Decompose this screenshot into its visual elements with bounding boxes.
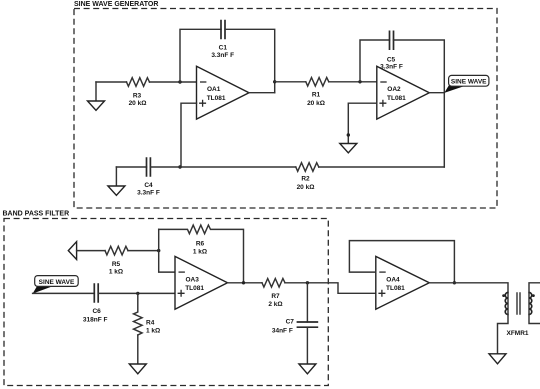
port arrow (R5 input) <box>68 242 76 260</box>
svg-text:3.3nF F: 3.3nF F <box>211 52 234 59</box>
resistor R7 <box>262 278 285 287</box>
wire primary bottom to ground <box>498 315 509 354</box>
svg-text:C5: C5 <box>387 57 396 64</box>
flag SINE WAVE output <box>444 75 489 93</box>
svg-text:20 kΩ: 20 kΩ <box>307 100 325 107</box>
phase dot primary <box>502 294 505 297</box>
wire R3 left <box>96 81 127 83</box>
resistor R2 <box>296 163 319 172</box>
node (OA2 inverting input) <box>358 80 361 83</box>
wire C5 right to output vertical <box>394 40 445 167</box>
wire OA1 plus input down to bottom rail <box>181 103 197 167</box>
svg-text:C4: C4 <box>144 182 153 189</box>
wire R4 to ground <box>137 335 139 364</box>
svg-text:318nF F: 318nF F <box>83 316 108 323</box>
svg-text:1 kΩ: 1 kΩ <box>109 269 123 276</box>
ground (OA2 non-inverting) <box>340 144 357 153</box>
svg-text:TL081: TL081 <box>387 95 406 102</box>
capacitor C7 <box>297 322 319 327</box>
svg-text:R7: R7 <box>271 293 280 300</box>
node (OA3 output / R6) <box>242 281 245 284</box>
wire OA4 feedback loop <box>349 241 454 283</box>
wire R5 to junction <box>128 250 159 252</box>
wire C1 right to output vertical <box>225 29 275 92</box>
svg-text:20 kΩ: 20 kΩ <box>297 184 315 191</box>
wire R2 to output vertical <box>319 166 445 168</box>
ground (R4) <box>129 364 146 374</box>
resistor R3 <box>127 78 150 87</box>
wire R7 to OA4 (with jog) <box>285 283 376 294</box>
svg-text:C7: C7 <box>286 319 295 326</box>
flag SINE WAVE input <box>33 276 79 294</box>
svg-text:34nF F: 34nF F <box>272 327 293 334</box>
primary winding <box>507 293 509 315</box>
wire port to R5 <box>77 250 105 252</box>
ground (C7) <box>299 364 316 374</box>
node (OA4 output) <box>453 281 456 284</box>
wire flag to C6 <box>33 292 95 294</box>
ground (XFMR1 primary) <box>489 354 506 364</box>
wire OA4 output to transformer <box>429 283 508 293</box>
node (R5/R6 junction) <box>157 249 160 252</box>
G_OUT <box>349 241 540 364</box>
wire C6 to OA3 plus <box>98 292 175 294</box>
wire OA1 output <box>249 92 275 94</box>
wire R1 to OA2 minus node <box>329 81 377 83</box>
dashed box sine wave generator <box>74 9 497 209</box>
svg-text:SINE WAVE: SINE WAVE <box>39 279 75 286</box>
svg-text:2 kΩ: 2 kΩ <box>268 301 282 308</box>
svg-text:R4: R4 <box>146 320 155 327</box>
resistor R1 <box>306 78 329 87</box>
svg-text:OA1: OA1 <box>207 86 221 93</box>
wire bottom rail to R2 <box>150 166 295 168</box>
svg-text:OA2: OA2 <box>387 86 401 93</box>
svg-text:XFMR1: XFMR1 <box>506 330 528 337</box>
transformer XFMR1 <box>502 292 535 337</box>
node (on OA2 ground stem) <box>347 133 350 136</box>
svg-text:SINE WAVE GENERATOR: SINE WAVE GENERATOR <box>74 1 158 8</box>
capacitor C1 <box>221 20 225 40</box>
capacitor C4 <box>147 157 151 177</box>
wire C1 left vertical <box>180 29 221 82</box>
svg-text:1 kΩ: 1 kΩ <box>193 248 207 255</box>
svg-text:R6: R6 <box>196 240 205 247</box>
resistor R5 <box>105 246 128 255</box>
wire C7 top <box>306 283 308 322</box>
wire R3 to node <box>150 81 197 83</box>
svg-text:SINE WAVE: SINE WAVE <box>451 79 487 86</box>
capacitor C6 <box>94 283 98 303</box>
G_BPF <box>33 225 376 374</box>
op-amp OA1 <box>197 66 250 119</box>
resistor R4 <box>134 293 143 335</box>
svg-text:3.3nF F: 3.3nF F <box>137 190 160 197</box>
ground (C4) <box>108 167 125 195</box>
node (OA1 inverting input) <box>178 80 181 83</box>
node (bottom rail / OA1 plus) <box>178 165 181 168</box>
svg-text:20 kΩ: 20 kΩ <box>129 100 147 107</box>
svg-text:TL081: TL081 <box>386 285 405 292</box>
wire junction down to OA3 minus <box>159 229 175 272</box>
resistor R6 <box>159 225 244 283</box>
svg-text:R3: R3 <box>133 92 142 99</box>
svg-text:OA4: OA4 <box>386 276 400 283</box>
svg-text:R5: R5 <box>112 261 121 268</box>
phase dot secondary <box>532 294 535 297</box>
svg-text:OA3: OA3 <box>186 276 200 283</box>
wire C4 left <box>116 166 146 168</box>
node (R7/C7 junction) <box>306 281 309 284</box>
svg-text:TL081: TL081 <box>207 95 226 102</box>
wire secondary top <box>529 283 540 293</box>
svg-text:C1: C1 <box>219 45 228 52</box>
node (OA1 output / R1) <box>273 80 276 83</box>
svg-text:1 kΩ: 1 kΩ <box>146 327 160 334</box>
svg-text:R1: R1 <box>312 91 321 98</box>
svg-text:TL081: TL081 <box>185 285 204 292</box>
wire C5 left vertical <box>360 40 390 82</box>
capacitor C5 <box>390 31 394 51</box>
node (C6/R4 junction) <box>136 292 139 295</box>
wire secondary bottom <box>529 315 540 324</box>
G_SWG <box>88 20 489 197</box>
op-amp OA4 <box>376 256 430 309</box>
svg-text:C6: C6 <box>92 308 101 315</box>
op-amp OA3 <box>175 256 228 309</box>
op-amp OA2 <box>377 66 430 119</box>
wire OA2 plus input <box>348 103 377 143</box>
wire C7 to ground <box>306 327 308 364</box>
wire OA3 output <box>228 282 263 284</box>
svg-text:BAND PASS FILTER: BAND PASS FILTER <box>3 211 70 218</box>
secondary winding <box>528 293 530 315</box>
wire node to R1 <box>275 81 306 83</box>
wire OA2 output <box>429 92 444 94</box>
dashed box band pass filter <box>4 219 328 386</box>
svg-text:R2: R2 <box>301 176 310 183</box>
ground (R3 input) <box>88 82 105 110</box>
core <box>517 292 520 315</box>
